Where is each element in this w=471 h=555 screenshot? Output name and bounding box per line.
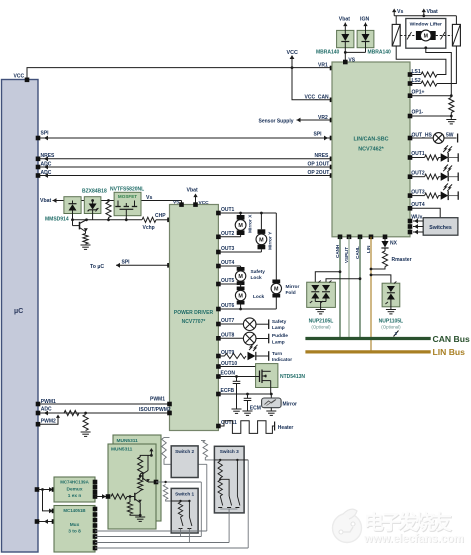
svg-text:Heater: Heater — [278, 425, 294, 431]
resistor R op1 — [449, 98, 454, 117]
svg-text:MBRA140: MBRA140 — [316, 49, 340, 55]
wire LS2 + resistor — [408, 46, 457, 86]
wire mux to uC — [38, 519, 54, 524]
wire Vbat stub — [40, 198, 64, 204]
mux pin right y514.5 — [93, 512, 98, 517]
svg-text:Switch 1: Switch 1 — [175, 491, 194, 496]
wire NRES — [38, 153, 332, 161]
bundle wire 1 — [95, 530, 207, 532]
NUP1105L box — [382, 283, 400, 307]
relay K2 right — [452, 16, 460, 46]
wire OUT_HS lamp — [408, 133, 458, 144]
LIN Bus line — [305, 347, 465, 357]
svg-text:OP1-: OP1- — [412, 110, 424, 116]
MC74HC139A demux block — [54, 477, 95, 502]
resistor R chp pullup — [106, 199, 111, 221]
SBC pin NRES — [330, 157, 335, 162]
svg-text:CHP: CHP — [155, 213, 166, 219]
wire LIN — [366, 235, 374, 351]
bundle wire 2 — [95, 536, 201, 538]
uC pin PWM2 — [36, 422, 41, 427]
microcontroller U-uC block — [2, 80, 39, 553]
ground C econ — [232, 409, 242, 413]
wire VR2 sensor supply — [259, 115, 333, 125]
POWER DRIVER NCV7707 block — [170, 205, 219, 431]
svg-text:M: M — [238, 223, 243, 229]
wire CANH — [335, 235, 343, 338]
SBC pin VR2 — [330, 118, 335, 123]
svg-text:CANL: CANL — [355, 246, 360, 259]
svg-text:SPI: SPI — [41, 131, 50, 137]
relay K1 left — [392, 16, 400, 46]
wire OUT11 heater — [216, 420, 293, 433]
svg-text:OUT8: OUT8 — [221, 332, 235, 338]
svg-text:ECON: ECON — [221, 370, 236, 376]
wire OUT10 — [216, 361, 271, 371]
wire OUT4 pd — [216, 260, 241, 268]
TVS D4 in NUP2105L — [321, 281, 332, 304]
svg-text:Vchp: Vchp — [143, 225, 155, 231]
LIN/CAN-SBC NCV7462 block — [332, 62, 410, 237]
svg-text:Switch 3: Switch 3 — [220, 449, 239, 454]
diode D1 MBRA140 Vbat — [337, 17, 354, 53]
capacitor C econ — [233, 377, 241, 409]
switch1 leg1 — [178, 502, 183, 537]
svg-text:NRES: NRES — [315, 153, 330, 159]
WUx label — [411, 214, 422, 220]
PD pin VS top — [173, 200, 184, 207]
svg-text:MUN5311: MUN5311 — [111, 446, 133, 452]
watermark text — [363, 510, 465, 546]
switch1 rail — [171, 500, 190, 502]
MOSFET Q1 symbol — [115, 201, 137, 222]
svg-text:M: M — [424, 34, 428, 40]
svg-text:OUT1: OUT1 — [221, 207, 235, 213]
wire demux to MUN — [95, 494, 107, 499]
wire branch to mux — [43, 490, 55, 514]
wire PWM2 stub — [38, 415, 60, 425]
label MBRA140 right — [368, 49, 392, 55]
svg-text:www.elecfans.com: www.elecfans.com — [363, 534, 464, 546]
switch3 rail — [214, 459, 248, 461]
wire sw2 return2 — [206, 464, 208, 531]
resistor R q2 emitter — [83, 234, 88, 245]
svg-text:2: 2 — [395, 331, 398, 337]
mux pin right y525.5 — [93, 523, 98, 528]
svg-text:VCC: VCC — [199, 200, 210, 206]
switch3 branch — [220, 479, 231, 507]
svg-text:BZX84B18: BZX84B18 — [82, 188, 107, 194]
label Vs rail — [146, 195, 152, 201]
junction CANH to NUP2105L — [315, 270, 341, 282]
wire LS1 + resistor — [396, 46, 446, 77]
transistor Q2 NPN — [71, 218, 88, 233]
wire OP 2OUT — [38, 170, 332, 178]
WUx pin wire y226.5 — [408, 224, 424, 229]
CAN Bus line — [305, 334, 470, 344]
svg-text:Vs: Vs — [146, 195, 152, 201]
svg-text:MUN5311: MUN5311 — [117, 438, 139, 444]
svg-text:CAN Bus: CAN Bus — [433, 334, 470, 344]
switch3 bottom stub — [220, 509, 237, 543]
diode NX + Rmaster — [370, 235, 412, 271]
svg-text:OUT3: OUT3 — [411, 189, 425, 195]
resistor R vchp — [142, 213, 170, 231]
svg-text:CANH: CANH — [335, 244, 340, 258]
svg-text:VCC: VCC — [287, 50, 298, 56]
wire uC to demux — [35, 487, 54, 492]
SBC pin VR1 — [330, 66, 335, 71]
svg-text:OUT7: OUT7 — [221, 318, 235, 324]
svg-text:Safety: Safety — [251, 269, 266, 275]
svg-text:OP 1OUT: OP 1OUT — [308, 161, 330, 167]
svg-text:VSPLIT: VSPLIT — [344, 247, 349, 263]
junction LIN to NUP1105L — [370, 274, 391, 284]
svg-text:LIN: LIN — [366, 245, 371, 253]
wire OUT3 — [216, 246, 261, 254]
PD pin PWM1 — [167, 402, 172, 407]
uC pin ADC1 — [36, 165, 41, 170]
wire OUT4 — [408, 202, 441, 218]
transistor Q5 NPN — [143, 454, 156, 482]
svg-text:OUT2: OUT2 — [221, 231, 235, 237]
svg-text:LIN/CAN-SBC: LIN/CAN-SBC — [353, 137, 388, 143]
svg-text:MBRA140: MBRA140 — [368, 49, 392, 55]
mux pin right y531 — [93, 529, 98, 534]
svg-text:Demux: Demux — [67, 486, 83, 492]
svg-text:MOSFET: MOSFET — [118, 194, 137, 199]
svg-text:ECFB: ECFB — [221, 388, 235, 394]
wire CANL — [355, 235, 363, 338]
svg-text:M: M — [259, 237, 264, 243]
NUP2105L common ground — [315, 302, 326, 314]
wire VS supply to SBC — [344, 51, 366, 64]
bus width marker 2 — [394, 331, 399, 338]
switch3 leg1 — [218, 461, 223, 508]
Switch 1 box — [171, 488, 198, 533]
Switch 3 box — [214, 446, 244, 513]
svg-text:Vbat: Vbat — [40, 198, 52, 204]
wire OUT2 LED string — [408, 165, 459, 182]
svg-text:M: M — [274, 287, 279, 293]
svg-text:NCV7462*: NCV7462* — [358, 147, 384, 153]
svg-text:ADC: ADC — [41, 161, 52, 167]
svg-text:PWM2: PWM2 — [41, 419, 56, 425]
ground q2 — [81, 245, 91, 249]
wire OUT8 puddle lamp — [216, 332, 288, 345]
svg-text:NCV7707*: NCV7707* — [182, 319, 206, 325]
wire OUT5 — [216, 278, 242, 286]
svg-text:OUT6: OUT6 — [221, 303, 235, 309]
svg-text:Lamp: Lamp — [272, 325, 285, 331]
SBC pin OP1OUT — [330, 165, 335, 170]
svg-text:电子发烧友: 电子发烧友 — [364, 510, 452, 534]
SBC pin VS — [343, 60, 348, 65]
junction CANL to NUP2105L — [326, 277, 361, 282]
TVS D5 in NUP1105L — [385, 282, 396, 310]
svg-text:Lock: Lock — [251, 275, 263, 281]
resistor R mun load low — [138, 478, 143, 490]
wire SPI to PD — [90, 260, 170, 270]
svg-text:VR1: VR1 — [318, 63, 328, 69]
svg-text:Turn: Turn — [272, 351, 282, 357]
wire ECFB — [216, 388, 273, 397]
wire OP 1OUT — [38, 161, 332, 169]
switch1 leg2 — [187, 501, 192, 543]
wire OUT7 safety lamp — [216, 318, 287, 331]
wire OUT1 — [216, 207, 276, 215]
demux pin right y482 — [93, 480, 98, 485]
svg-text:Mirror X: Mirror X — [248, 214, 254, 233]
uC pin ADC3 — [36, 411, 41, 416]
label VCC + arrow — [287, 50, 298, 68]
svg-text:Mux: Mux — [70, 522, 80, 528]
MUN pin output — [154, 480, 159, 485]
label VCC_CAN — [305, 95, 330, 101]
zener D7 BZX84B18 — [82, 188, 107, 220]
svg-text:MC74HC139A: MC74HC139A — [60, 479, 89, 484]
watermark logo circle — [333, 509, 362, 542]
PD pin CHP — [167, 218, 172, 223]
svg-text:Indicator: Indicator — [272, 357, 292, 363]
svg-text:Mirror: Mirror — [283, 401, 298, 407]
window lifter motor M — [416, 30, 436, 41]
rail Vs — [64, 200, 182, 202]
svg-text:Rmaster: Rmaster — [392, 257, 412, 263]
svg-text:OP 2OUT: OP 2OUT — [308, 170, 330, 176]
mux pin right y536.5 — [93, 534, 98, 539]
wire OUT3 LED string — [408, 184, 459, 201]
mux pin left — [52, 519, 57, 524]
svg-text:OUT4: OUT4 — [221, 260, 235, 266]
svg-text:NX: NX — [390, 241, 398, 247]
uC pin SPI — [36, 136, 41, 141]
svg-text:Puddle: Puddle — [272, 333, 288, 339]
wire PWM1 uC to PD — [38, 397, 170, 406]
mux pin right y520 — [93, 518, 98, 523]
NTD5413N box — [256, 364, 306, 388]
svg-text:LIN Bus: LIN Bus — [433, 347, 466, 357]
wire ISOUT/PWM2 — [38, 407, 171, 416]
svg-text:Lamp: Lamp — [272, 340, 285, 346]
svg-text:To µC: To µC — [90, 264, 104, 270]
supply rail Vs/Vbat — [392, 9, 456, 18]
svg-text:VS: VS — [173, 200, 180, 206]
wire motor common to OP1+ — [424, 46, 451, 95]
svg-text:Sensor Supply: Sensor Supply — [259, 119, 294, 125]
uC pin NRES — [36, 157, 41, 162]
wire sw3 return right — [247, 460, 249, 548]
WUx pin wire y221 — [408, 219, 424, 224]
mux pin left top — [52, 509, 57, 514]
wire OUT6 — [216, 303, 276, 311]
demux pin right y487 — [93, 485, 98, 490]
svg-text:SPI: SPI — [122, 260, 131, 266]
wire OUT2 — [216, 231, 241, 239]
WUx pin wire y232 — [408, 230, 424, 235]
uC pin VCC — [14, 74, 30, 83]
svg-text:1 ex n: 1 ex n — [68, 493, 82, 499]
svg-text:Mirror: Mirror — [286, 284, 300, 290]
wire mun out bus — [156, 481, 201, 483]
ground op1- — [446, 116, 456, 124]
svg-text:PWM1: PWM1 — [150, 397, 165, 403]
resistor R mun in — [111, 494, 134, 499]
bundle wire 3 — [95, 542, 229, 544]
Switches box — [423, 218, 458, 236]
svg-text:µC: µC — [14, 306, 23, 315]
NUP1105L ground — [386, 310, 396, 314]
mux pin right y509 — [93, 507, 98, 512]
diode D6 MMSD914 — [45, 197, 81, 223]
label NUP1105L — [379, 318, 403, 329]
svg-text:OUT1: OUT1 — [411, 151, 425, 157]
svg-text:Vbat: Vbat — [339, 17, 351, 23]
MUN5311 front box — [108, 444, 156, 529]
SBC pin SPI — [330, 136, 335, 141]
svg-text:MC14051B: MC14051B — [63, 508, 85, 513]
relay contact dashes left — [400, 32, 416, 40]
svg-text:NTD5413N: NTD5413N — [280, 374, 305, 380]
svg-text:Vbat: Vbat — [427, 9, 439, 15]
mux pin right y548 — [93, 546, 98, 551]
svg-text:NVTFS5820NL: NVTFS5820NL — [110, 187, 144, 193]
bundle wire 4 — [95, 547, 248, 549]
motor M1 Mirror X — [235, 213, 253, 237]
switch3 leg3 — [235, 460, 240, 508]
svg-text:ISOUT/PWM2: ISOUT/PWM2 — [139, 407, 171, 413]
svg-text:Fold: Fold — [286, 290, 296, 296]
TVS D3 in NUP2105L — [310, 281, 321, 304]
MOSFET Q1 NVTFS5820NL box — [110, 187, 144, 216]
MOSFET Q3 NTD5413N symbol — [260, 370, 271, 388]
Window Lifter box — [406, 19, 446, 49]
wire OUT9 turn indicator — [216, 344, 292, 363]
wire SPI bus — [38, 131, 332, 141]
rail chp — [73, 219, 143, 221]
resistor R sw3 feed — [201, 441, 214, 460]
svg-text:Vs: Vs — [397, 9, 403, 15]
svg-text:M: M — [238, 294, 243, 300]
wire OUT1 LED string — [408, 145, 459, 162]
svg-text:Safety: Safety — [272, 319, 287, 325]
svg-text:(Optional): (Optional) — [381, 324, 401, 329]
wire VSPLIT — [344, 235, 352, 338]
svg-text:POWER DRIVER: POWER DRIVER — [174, 310, 214, 316]
wire Vbat to VCC pin — [187, 187, 210, 207]
wire mun mid node — [139, 475, 143, 478]
resistor R mun pulldown — [127, 497, 140, 516]
svg-text:ADC: ADC — [41, 407, 52, 413]
MC14051B mux block — [54, 506, 95, 553]
resistor R isout pulldown — [81, 415, 91, 437]
resistor R isout — [64, 410, 87, 415]
uC pin PWM1 — [36, 402, 41, 407]
demux pin right y496.5 — [93, 494, 98, 499]
demux pin right y492 — [93, 490, 98, 495]
svg-text:(Optional): (Optional) — [311, 324, 331, 329]
svg-text:ADC: ADC — [41, 170, 52, 176]
resistor R sw1 feed — [163, 485, 171, 502]
SBC pin OP2OUT — [330, 173, 335, 178]
svg-text:OP1+: OP1+ — [412, 90, 425, 96]
Switch 2 box — [171, 446, 198, 478]
svg-text:VS: VS — [348, 58, 355, 64]
svg-text:OUT5: OUT5 — [221, 278, 235, 284]
svg-text:OUT3: OUT3 — [221, 246, 235, 252]
demux pin left — [52, 487, 57, 492]
resistor R mun load high — [138, 455, 152, 476]
svg-text:M: M — [238, 274, 243, 280]
svg-text:PWM1: PWM1 — [41, 399, 56, 405]
svg-text:Switches: Switches — [429, 225, 452, 231]
svg-text:SPI: SPI — [314, 132, 323, 138]
svg-text:Lock: Lock — [253, 294, 265, 300]
ground mun — [135, 517, 145, 521]
uC pin mux — [35, 519, 40, 524]
wire ECON — [216, 370, 259, 379]
wire sw2 return — [200, 482, 202, 537]
svg-text:5W: 5W — [446, 133, 454, 139]
wire OP1- — [408, 110, 453, 119]
svg-text:NRES: NRES — [41, 153, 56, 159]
wire VCC_CAN branch — [292, 68, 332, 100]
svg-text:Vbat: Vbat — [187, 187, 199, 193]
diode D2 MBRA140 IGN — [357, 17, 374, 53]
svg-text:Mirror Y: Mirror Y — [268, 231, 274, 250]
transistor Q4 NPN — [135, 490, 142, 517]
capacitor C ecm — [243, 394, 261, 415]
MUN5311 back box — [113, 435, 161, 521]
SBC pin VCC_CAN — [330, 98, 335, 103]
svg-text:MMSD914: MMSD914 — [45, 217, 69, 223]
svg-text:VCC_CAN: VCC_CAN — [305, 95, 330, 101]
svg-text:Switch 2: Switch 2 — [175, 449, 194, 454]
label MBRA140 left — [316, 49, 340, 55]
motor M5 Mirror Fold — [271, 213, 299, 309]
MUN pin input — [106, 494, 111, 499]
label VR1 — [318, 63, 328, 69]
PD pin SPI — [167, 263, 172, 268]
svg-text:3 to 8: 3 to 8 — [68, 528, 81, 534]
motor M4 Lock — [235, 284, 264, 309]
uC pin ADC2 — [36, 173, 41, 178]
svg-text:ECM: ECM — [250, 406, 261, 412]
NUP2105L box — [307, 282, 336, 307]
Mirror glass box — [262, 394, 297, 415]
wire VCC net — [27, 66, 332, 79]
wire sw2 feed resistor — [162, 438, 207, 465]
svg-text:OUT4: OUT4 — [411, 202, 425, 208]
svg-text:IGN: IGN — [360, 17, 369, 23]
label NUP2105L — [309, 318, 334, 329]
svg-text:VR2: VR2 — [318, 115, 328, 121]
motor M3 Safety Lock — [235, 266, 265, 285]
mux pin right y542.5 — [93, 540, 98, 545]
relay contact dashes right — [436, 32, 453, 40]
wire OP1+ — [408, 90, 453, 99]
motor M2 Mirror Y — [256, 213, 274, 252]
wire mun supply arrow — [149, 448, 153, 455]
PD pin ISOUT — [167, 411, 172, 416]
svg-text:Window Lifter: Window Lifter — [410, 21, 442, 27]
svg-text:OUT2: OUT2 — [411, 170, 425, 176]
svg-text:VCC: VCC — [14, 74, 25, 80]
